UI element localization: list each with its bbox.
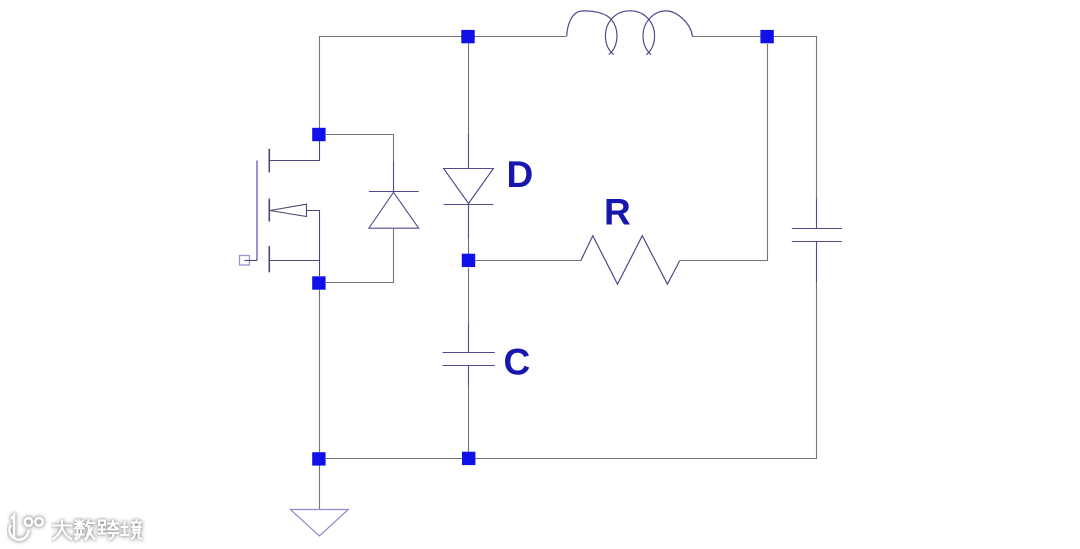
- node top mid: [461, 30, 474, 43]
- wire resistor to right vertical: [680, 44, 768, 261]
- transistor Q1 gate terminal square: [240, 256, 250, 266]
- wire bottom rail left: [326, 458, 462, 460]
- wire cap to bottom node: [468, 385, 470, 452]
- node bottom mid: [462, 452, 475, 465]
- watermark text (vector CJK approximation): [51, 517, 151, 549]
- wire left vertical source to bottom: [319, 290, 321, 452]
- wire body stub: [307, 211, 320, 277]
- capacitor C1 pin top: [468, 323, 470, 353]
- diode D2 body diode pin top: [393, 162, 395, 192]
- wire node to resistor: [475, 260, 581, 262]
- wire gate stub: [245, 260, 258, 262]
- inductor L1: [567, 11, 693, 55]
- transistor Q1 body arrow: [270, 204, 307, 216]
- wire node to cap C: [468, 268, 470, 323]
- diode D1 pin bottom: [468, 205, 470, 239]
- node top right: [760, 30, 773, 43]
- transistor Q1 channel middle segment: [268, 199, 270, 222]
- svg-text:R: R: [604, 192, 631, 233]
- char kua: [99, 521, 119, 540]
- capacitor C2 pin bottom: [816, 242, 818, 283]
- diode D2 triangle: [369, 192, 419, 228]
- wire ground stub: [319, 465, 321, 510]
- capacitor C1 pin bottom: [468, 366, 470, 386]
- wire mid vertical top: [468, 43, 470, 134]
- capacitor C1 top plate: [443, 352, 495, 354]
- transistor Q1 channel top segment: [268, 149, 270, 173]
- watermark logo: [7, 510, 51, 546]
- transistor Q1 channel bottom segment: [268, 246, 270, 272]
- wire body diode top: [326, 135, 394, 163]
- diode D2 cathode bar: [369, 191, 419, 193]
- transistor Q1 gate line: [256, 161, 258, 261]
- diode D1 pin top: [468, 134, 470, 169]
- wire source horizontal: [269, 260, 319, 262]
- capacitor C2 bottom plate: [792, 241, 842, 243]
- capacitor C1 bottom plate: [443, 365, 495, 367]
- capacitor C2 pin top: [816, 199, 818, 229]
- diode D1 triangle: [444, 169, 494, 204]
- node source: [312, 276, 325, 289]
- char da: [53, 521, 72, 540]
- node mid R: [462, 254, 475, 267]
- diode D1 cathode bar: [444, 204, 494, 206]
- svg-text:D: D: [507, 154, 534, 195]
- wire drain connection: [269, 141, 319, 161]
- node bottom left: [312, 452, 325, 465]
- wire right vertical bottom: [475, 282, 817, 459]
- wire top rail left: [320, 37, 567, 129]
- resistor R1 zigzag: [581, 236, 680, 285]
- wire diode to node: [468, 238, 470, 254]
- char shu: [75, 520, 95, 540]
- svg-text:C: C: [504, 342, 531, 383]
- node drain: [312, 128, 325, 141]
- wire top rail right of inductor: [692, 37, 817, 200]
- ground: [290, 510, 348, 536]
- capacitor C2 top plate: [792, 228, 842, 230]
- wire body diode bottom: [326, 228, 394, 282]
- char jing: [121, 520, 142, 539]
